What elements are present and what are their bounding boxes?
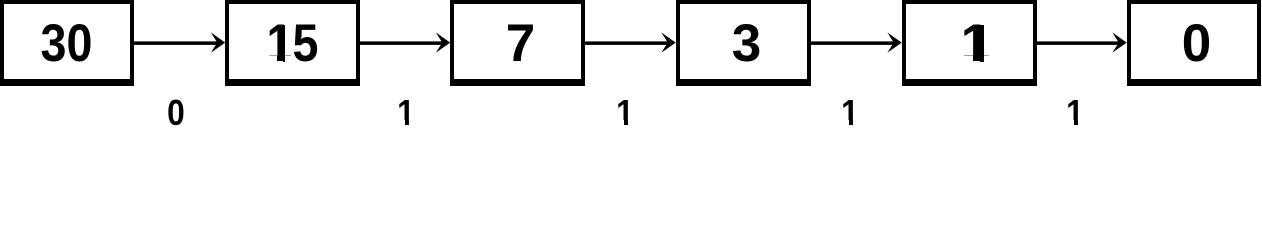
box 0 [1127, 0, 1261, 86]
glyph fix-ups: remove Liberation "1" foot serifs, widen stems (Calibri look) [963, 56, 973, 63]
arrows [0, 0, 1262, 145]
box 3 [676, 0, 811, 86]
arrow 3 [585, 41, 669, 45]
labels [167, 95, 185, 131]
box 15 [225, 0, 360, 86]
arrow 5 [1037, 41, 1121, 45]
box 30 [0, 0, 134, 86]
arrow 2 [360, 41, 444, 45]
box 7 [450, 0, 585, 86]
arrow 1 [133, 41, 218, 45]
box 1 [902, 0, 1037, 86]
arrow 4 [811, 41, 895, 45]
